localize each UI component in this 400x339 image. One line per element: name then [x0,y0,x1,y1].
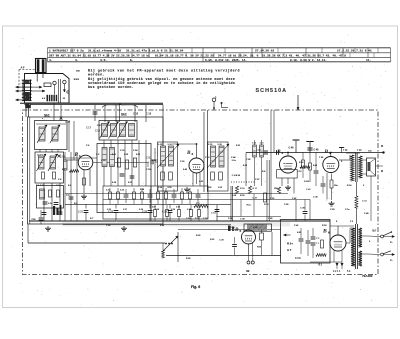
svg-text:A 7: A 7 [287,248,292,252]
svg-text:Bij gebruik van het FM-apparaa: Bij gebruik van het FM-apparaat moet dez… [88,69,240,73]
svg-text:C 19: C 19 [146,113,152,116]
svg-text:C 17: C 17 [86,128,92,130]
svg-text:C 14: C 14 [362,201,367,203]
svg-text:6.05. 0.212 16. 2625. 14.: 6.05. 0.212 16. 2625. 14. [205,59,247,62]
svg-text:R W: R W [218,187,222,189]
svg-text:4 2 1 1: 4 2 1 1 [333,270,341,273]
svg-text:27.14.26 16: 27.14.26 16 [255,50,274,53]
svg-text:R 2+: R 2+ [287,242,293,246]
svg-text:C 39: C 39 [240,219,245,221]
svg-text:C 27: C 27 [253,198,258,200]
svg-text:17.2.22.26.7.31 6 41: 17.2.22.26.7.31 6 41 [337,50,372,53]
svg-text:SCH510A: SCH510A [256,88,288,94]
svg-text:31.31.a1.47a 8.a1.b 6 21 21.2: 31.31.a1.47a 8.a1.b 6 21 21.26.34 [126,49,184,53]
svg-text:10P: 10P [208,187,212,189]
svg-text:C 19: C 19 [133,113,139,116]
svg-text:4.: 4. [75,59,79,62]
svg-text:worden.: worden. [88,73,105,77]
svg-text:R 17: R 17 [253,188,258,190]
svg-text:Fig. 6: Fig. 6 [191,285,200,289]
svg-text:C 4 6: C 4 6 [295,257,301,260]
svg-text:61.64 21.18 18.77 4. 38 2V 22.: 61.64 21.18 18.77 4. 38 2V 22.23 28 [155,54,214,57]
svg-text:C 15: C 15 [95,131,101,133]
svg-text:3.610: 3.610 [304,181,310,183]
svg-text:1 6A7B16B17 217 0 2a: 1 6A7B16B17 217 0 2a [49,50,84,53]
svg-text:4.5.: 4.5. [100,59,107,62]
svg-text:Sk1: Sk1 [44,114,50,118]
svg-text:R12-: R12- [247,205,252,207]
svg-text:C 38: C 38 [300,208,305,210]
svg-text:C 40: C 40 [256,150,261,152]
svg-text:B: B [186,150,191,156]
svg-text:267 98 A57.31 91.04 21.18 18.7: 267 98 A57.31 91.04 21.18 18.77 4.38 2V … [49,53,150,57]
svg-text:C 28: C 28 [162,212,168,214]
svg-text:C 29: C 29 [219,240,224,242]
svg-text:C 40: C 40 [289,147,295,150]
svg-text:31.b.a1.rfnmna 4-10: 31.b.a1.rfnmna 4-10 [88,49,121,53]
svg-text:B: B [324,149,329,155]
svg-text:B: B [322,229,327,235]
svg-text:11.: 11. [366,59,371,62]
svg-text:C 48: C 48 [313,197,318,199]
svg-text:bus gestoken worden.: bus gestoken worden. [88,85,134,89]
svg-text:B: B [276,149,281,155]
svg-text:B: B [234,227,239,233]
svg-text:9.10. 9.50 W 2. 12.11.: 9.10. 9.50 W 2. 12.11. [290,59,327,62]
svg-text:C 10a: C 10a [146,169,152,171]
svg-text:E.: E. [130,59,134,62]
svg-text:C 18: C 18 [65,121,71,124]
svg-text:C 10: C 10 [146,158,152,160]
svg-text:C 14: C 14 [211,213,216,215]
svg-text:A F: A F [21,66,25,69]
svg-text:4.: 4. [49,59,53,62]
svg-text:Sk7: Sk7 [372,230,377,233]
svg-text:Sk2: Sk2 [121,113,127,117]
svg-text:C 45: C 45 [314,149,320,152]
svg-text:99: 99 [246,269,250,273]
svg-text:14 TY: 14 TY [37,155,43,157]
svg-text:xxx: xxx [74,77,80,81]
svg-text:R 16: R 16 [240,188,245,190]
svg-text:T 22: T 22 [357,150,362,152]
svg-text:xx: xx [76,69,80,73]
svg-text:T 21: T 21 [343,150,348,152]
svg-text:24.77 18 b1 28.24. 33. 6: 24.77 18 b1 28.24. 33. 6 [218,53,259,57]
